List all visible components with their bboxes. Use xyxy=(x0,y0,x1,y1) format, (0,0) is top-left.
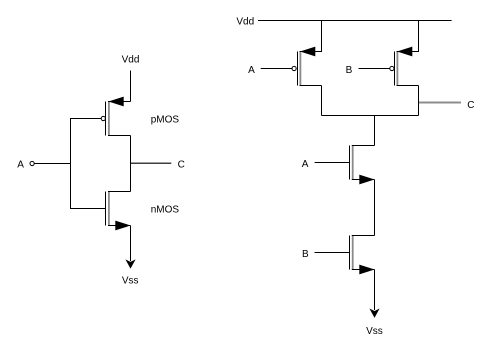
svg-text:Vss: Vss xyxy=(122,275,139,286)
transistor pMOS (inverter pull-up) xyxy=(101,97,130,136)
wire output node (pMOS drain to nMOS drain) xyxy=(130,136,132,192)
svg-text:pMOS: pMOS xyxy=(151,115,180,126)
wire Vdd rail to pMOS A source xyxy=(321,21,323,53)
svg-text:Vss: Vss xyxy=(366,326,383,337)
ground arrow Vss (right circuit) xyxy=(371,310,379,317)
transistor nMOS B (NAND pull-down, lower) xyxy=(350,235,375,274)
wire pMOS A drain down xyxy=(321,86,323,116)
transistor nMOS (inverter pull-down) xyxy=(106,191,131,230)
wire pMOS B drain down xyxy=(418,86,420,116)
transistor pMOS B (NAND pull-up) xyxy=(390,47,419,86)
wire nMOS A source to nMOS B drain xyxy=(374,180,376,236)
wire A to gate bus xyxy=(34,163,70,165)
wire nMOS B source to Vss xyxy=(374,270,376,311)
ground arrow Vss (left circuit) xyxy=(127,261,135,268)
svg-text:Vdd: Vdd xyxy=(122,55,140,66)
wire Vdd to pMOS source xyxy=(130,71,132,102)
wire bus to nMOS gate xyxy=(70,208,106,210)
wire bus to pMOS gate bubble xyxy=(70,118,101,120)
wire A to pMOS A gate xyxy=(261,68,292,70)
svg-text:Vdd: Vdd xyxy=(236,16,254,27)
svg-text:C: C xyxy=(467,100,474,111)
svg-text:A: A xyxy=(248,65,255,76)
wire gate bus vertical xyxy=(70,118,72,209)
transistor nMOS A (NAND pull-down, upper) xyxy=(350,145,375,184)
svg-text:A: A xyxy=(302,159,309,170)
wire A to nMOS A gate xyxy=(315,162,350,164)
wire output to C (gray, right circuit) xyxy=(419,102,461,104)
transistor pMOS A (NAND pull-up) xyxy=(292,47,322,86)
wire output to C (gray) xyxy=(131,162,171,164)
wire Vdd rail xyxy=(258,20,452,22)
wire common drain rail xyxy=(322,115,419,117)
wire B to pMOS B gate xyxy=(359,68,390,70)
wire common rail to nMOS A drain xyxy=(374,116,376,146)
svg-text:A: A xyxy=(17,159,24,170)
svg-text:B: B xyxy=(302,249,309,260)
svg-text:C: C xyxy=(178,159,185,170)
wire nMOS source to Vss xyxy=(130,226,132,262)
wire Vdd rail to pMOS B source xyxy=(418,21,420,53)
wire B to nMOS B gate xyxy=(315,252,350,254)
svg-text:B: B xyxy=(346,65,353,76)
svg-text:nMOS: nMOS xyxy=(151,205,180,216)
input terminal circle A xyxy=(30,161,34,165)
